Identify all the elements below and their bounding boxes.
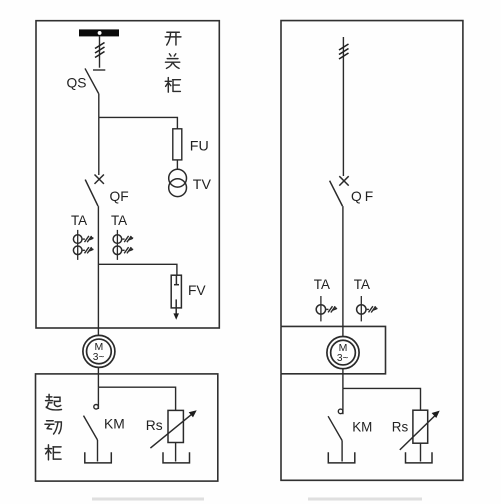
- fork contact under KM (right): [328, 452, 355, 463]
- motor M left: [83, 335, 115, 367]
- wire motor to junction (right): [342, 369, 344, 389]
- 柜: [165, 78, 180, 92]
- svg-text:KM: KM: [352, 419, 372, 434]
- current transformer TA stub (rd right): [357, 296, 366, 321]
- 柜: [45, 445, 61, 460]
- motor M right: [327, 337, 359, 369]
- current transformer TA stub (right pair): [113, 230, 122, 260]
- fork contact under Rs (right): [406, 452, 433, 463]
- 关: [165, 54, 179, 69]
- wire branch to Rs: [98, 387, 175, 410]
- wire top to break (right): [342, 37, 344, 176]
- faint caption remnant right: [308, 498, 422, 501]
- wire QS to junction: [98, 94, 100, 118]
- svg-text:FV: FV: [188, 283, 206, 298]
- starter cabinet box: [36, 374, 218, 481]
- wire busbar to break: [99, 36, 101, 67]
- main wire QF to motor (right): [342, 206, 344, 337]
- wire branch to FV: [98, 264, 176, 275]
- line break slashes (right): [339, 44, 349, 59]
- svg-text:TV: TV: [193, 177, 212, 193]
- switchgear cabinet box: [36, 21, 219, 328]
- svg-text:FU: FU: [190, 138, 209, 154]
- label 起动柜 (vertical): [45, 394, 62, 460]
- svg-text:TA: TA: [314, 277, 330, 292]
- voltage transformer TV: [169, 169, 187, 196]
- wire FU to TV: [176, 160, 178, 170]
- fork contact under KM: [85, 452, 112, 463]
- svg-text:3~: 3~: [337, 353, 349, 364]
- circuit breaker QF (right): [330, 176, 349, 206]
- svg-text:QF: QF: [351, 189, 376, 204]
- svg-text:TA: TA: [111, 213, 127, 228]
- busbar: [79, 29, 119, 36]
- svg-text:TA: TA: [71, 213, 87, 228]
- wire branch to Rs (right): [343, 388, 421, 410]
- svg-text:Rs: Rs: [146, 418, 163, 433]
- svg-text:KM: KM: [104, 416, 125, 431]
- fork contact under Rs: [163, 452, 190, 463]
- line break slashes: [95, 43, 105, 58]
- 开: [165, 32, 181, 45]
- right cabinet box: [281, 21, 463, 481]
- wire junction to QF: [98, 117, 100, 175]
- faint caption remnant left: [92, 498, 204, 501]
- svg-text:QF: QF: [110, 189, 129, 204]
- wire branch to FU: [99, 117, 178, 128]
- circuit breaker QF: [85, 175, 104, 207]
- current transformer TA stub (rd left): [316, 296, 325, 321]
- surge arrester FV: [171, 275, 181, 315]
- svg-text:TA: TA: [354, 277, 370, 292]
- main wire QF down to motor: [97, 206, 99, 335]
- fuse FU: [173, 129, 182, 160]
- current transformer TA stub (left pair): [73, 230, 82, 260]
- label 开关柜 (vertical): [165, 32, 181, 92]
- contactor KM (right): [328, 388, 343, 461]
- contactor KM: [84, 387, 99, 461]
- 起: [46, 394, 62, 410]
- svg-text:QS: QS: [67, 76, 87, 91]
- wire motor to junction: [97, 367, 99, 387]
- svg-text:Rs: Rs: [392, 419, 409, 434]
- disconnector QS: [85, 68, 105, 93]
- resistor Rs: [150, 410, 193, 461]
- 动: [45, 421, 61, 434]
- resistor Rs (right): [400, 410, 436, 461]
- svg-text:3~: 3~: [93, 352, 105, 363]
